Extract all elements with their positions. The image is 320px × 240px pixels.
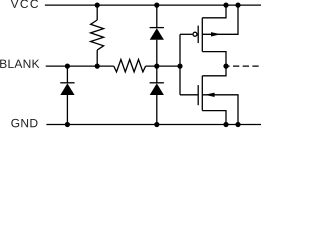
junction VCC / Q1 body [235, 3, 240, 8]
resistor R2 [114, 60, 146, 72]
wire Q2 source lead [202, 111, 226, 125]
wire BLANK rail right segment to gates [146, 65, 180, 67]
inverter bubble on Q1 gate [193, 32, 197, 36]
transistor Q1 gate bar [197, 26, 199, 43]
wire gate line to Q1 bubble [180, 33, 192, 35]
resistor R1 [91, 20, 104, 50]
junction VCC / Q1 source [223, 3, 228, 8]
node BLANK label [0, 60, 39, 68]
junction BLANK / gate line [177, 64, 182, 69]
junction GND / D3 [154, 122, 159, 127]
wire BLANK rail [46, 65, 114, 67]
junction BLANK / R1 [95, 64, 100, 69]
diode D1 cathode bar [150, 27, 164, 29]
wire Q1 body lead [202, 5, 238, 34]
wire output dashed [226, 65, 261, 67]
transistor Q2 body arrow [205, 93, 215, 97]
wire GND rail [46, 124, 261, 126]
junction output node [223, 64, 228, 69]
junction GND / Q2 body [235, 122, 240, 127]
wire Q1 drain lead [202, 52, 226, 67]
junction VCC / R1 [95, 3, 100, 8]
wire BLANK to D2 cathode [66, 66, 68, 83]
junction BLANK / D1 / D3 [154, 64, 159, 69]
transistor Q2 gate bar [197, 85, 199, 105]
junction GND / D2 [65, 122, 70, 127]
wire D3 anode to GND [156, 95, 158, 125]
transistor Q1 body arrow [211, 32, 221, 36]
node GND label [11, 119, 37, 128]
wire D1 anode to BLANK [156, 40, 158, 66]
diode D2 [60, 83, 74, 95]
transistor Q2 channel bar [201, 76, 203, 111]
wire D2 anode to GND [66, 95, 68, 125]
wire Q1 source lead [202, 5, 226, 18]
diode D3 [150, 83, 164, 95]
wire R1 to BLANK [96, 50, 98, 66]
wire VCC to R1 [96, 5, 98, 20]
node VCC label [11, 0, 38, 8]
wire VCC rail [45, 4, 261, 6]
wire gate line to Q2 gate [180, 94, 198, 96]
transistor Q1 channel bar [201, 18, 203, 52]
junction GND / Q2 source [223, 122, 228, 127]
junction BLANK / D2 [65, 64, 70, 69]
wire gate line vertical [179, 34, 181, 95]
diode D3 cathode bar [150, 82, 164, 84]
diode D1 [150, 28, 164, 40]
wire VCC to D1 cathode [156, 5, 158, 28]
wire Q2 drain lead [202, 66, 226, 76]
diode D2 cathode bar [60, 82, 74, 84]
wire BLANK to D3 cathode [156, 66, 158, 83]
junction VCC / D1 [154, 3, 159, 8]
wire Q2 body lead [202, 95, 238, 125]
